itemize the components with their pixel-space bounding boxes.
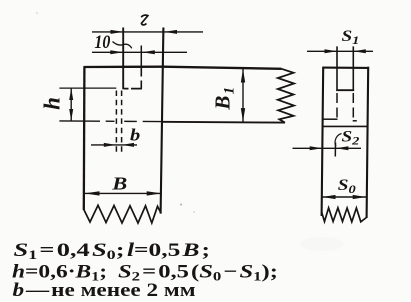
S1 slot left wall	[336, 46, 338, 90]
b dimension line	[91, 144, 137, 146]
S1 right arrow	[353, 49, 365, 53]
h arrow down	[69, 109, 73, 121]
h dimension line	[70, 88, 72, 121]
hidden slot wall right dashes	[352, 93, 354, 120]
left plate left edge	[83, 66, 86, 210]
svg-text:10: 10	[94, 32, 110, 52]
svg-text:l=0,5 B ;: l=0,5 B ;	[127, 239, 210, 261]
B1 arrow up	[241, 69, 245, 83]
dimension 10: dim line	[92, 51, 187, 53]
right part top edge	[323, 67, 370, 69]
B1 arrow down	[241, 108, 245, 122]
dimension l: right arrow	[164, 30, 177, 34]
left plate right edge	[161, 28, 164, 214]
slot hidden line left	[115, 91, 117, 153]
dimension l: left arrow	[111, 30, 124, 34]
h arrow up	[69, 88, 73, 100]
svg-text:B: B	[111, 175, 127, 194]
slot bottom bar	[336, 89, 354, 91]
label l (script ell)	[141, 15, 148, 25]
h top reference line	[59, 87, 116, 89]
groove bottom step	[124, 88, 142, 90]
b right arrow	[122, 143, 134, 147]
B left arrow	[85, 191, 100, 195]
b left arrow	[104, 143, 116, 147]
groove left wall / extension line	[122, 28, 124, 90]
left plate top edge	[84, 67, 282, 69]
internal bottom line	[322, 125, 367, 127]
lower sheet line (h bottom reference / bar bottom continuation)	[59, 120, 161, 123]
B1 dimension line	[242, 69, 244, 122]
S0 right arrow	[353, 195, 366, 199]
S1 left arrow	[325, 49, 338, 53]
S0 left arrow	[322, 195, 335, 199]
dimension l: dim line	[92, 31, 203, 33]
faint scan smudges	[300, 237, 344, 251]
groove right wall extension	[140, 46, 142, 67]
S0 dimension line	[322, 196, 366, 198]
svg-text:b — не менее 2 мм: b — не менее 2 мм	[13, 279, 196, 301]
S2 leader	[335, 134, 341, 147]
dimension 10: right arrow	[142, 50, 155, 54]
svg-text:b: b	[130, 126, 140, 145]
right bar break zigzag	[278, 69, 294, 123]
S2 right arrow	[336, 146, 348, 150]
S1 dimension line	[307, 50, 373, 52]
right part right edge	[367, 67, 369, 218]
B right arrow	[147, 191, 162, 195]
left internal step	[322, 118, 337, 120]
S1 slot right wall	[352, 46, 354, 90]
slot hidden line right	[121, 91, 123, 153]
hidden slot wall left dashes	[336, 93, 338, 120]
right internal corner dash	[353, 120, 357, 122]
right part bottom break zigzag	[322, 208, 367, 222]
dimension 10: left arrow	[110, 50, 123, 54]
right part left edge	[322, 67, 324, 216]
svg-text:h: h	[40, 97, 65, 110]
B dimension line	[84, 192, 162, 194]
S2 left arrow	[310, 146, 323, 150]
left plate bottom break zigzag	[84, 205, 161, 223]
leader from 10 label	[113, 42, 132, 49]
right bar bottom edge	[162, 121, 286, 124]
slot wall stub through S2 line	[334, 143, 336, 157]
groove right wall hidden dashes	[140, 68, 142, 89]
S2 dimension line	[293, 147, 362, 149]
